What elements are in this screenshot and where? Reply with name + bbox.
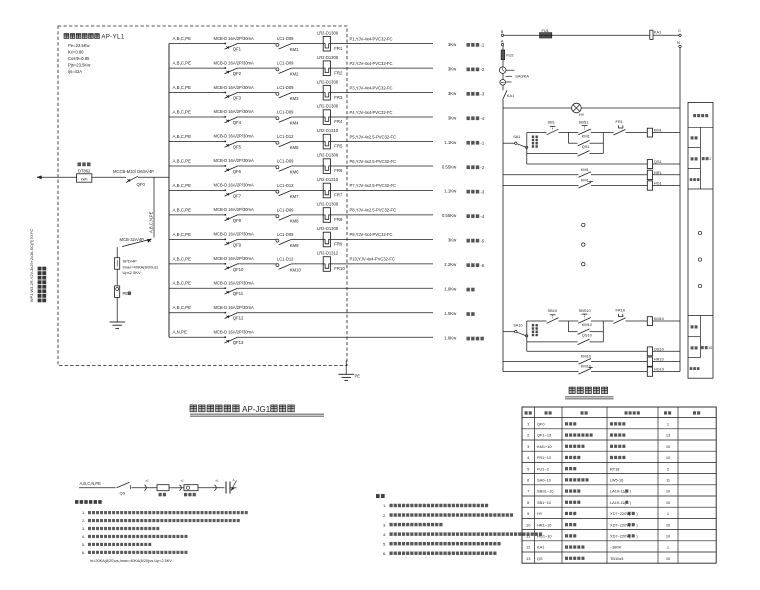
continuation dots control [582,223,585,266]
time switch SA0 clock symbol [499,67,529,79]
svg-text:13: 13 [666,433,670,438]
svg-text:A,B,C,PE: A,B,C,PE [173,85,192,90]
row 1 load name [467,43,485,48]
svg-text:QF12: QF12 [233,316,244,321]
SPD isolating breaker MCB-32A/4P [120,237,152,247]
svg-text:LR2-D1306: LR2-D1306 [317,30,339,35]
legend row 11 HG1~10 [526,534,671,539]
svg-text:QS1: QS1 [654,159,662,164]
svg-text:1.1Kw: 1.1Kw [444,140,457,145]
svg-text:SBS10: SBS10 [579,308,592,313]
cable label P2,YJV-4x4-PVC32-FC [350,61,393,66]
svg-text:KM3: KM3 [290,96,299,101]
svg-text:11: 11 [666,478,670,483]
timer rung wire [527,350,680,352]
row 12 load name [467,312,475,316]
svg-text:3: 3 [527,444,529,449]
row 6 load name [467,165,485,170]
svg-text:P6,YJV-4x2.5-PVC32-FC: P6,YJV-4x2.5-PVC32-FC [350,159,397,164]
svg-text:N: N [677,40,680,45]
contactor KM1 LC1-D09 [276,36,299,52]
svg-text:3Kw: 3Kw [448,115,457,120]
relay coil KA1 [650,30,661,40]
svg-text:KM1~10: KM1~10 [537,444,552,449]
contactor KM3 LC1-D09 [276,85,299,101]
svg-text:MCB-D 16A/2P/30mA: MCB-D 16A/2P/30mA [214,134,255,139]
row 2 load name [467,67,485,72]
incoming cable label WP1 vertical [29,229,34,302]
svg-text:A,B,C,N,PE: A,B,C,N,PE [148,211,153,233]
contactor KM6 LC1-D09 [276,159,299,175]
svg-text:KM5: KM5 [290,145,299,150]
svg-text:Up≤2.5KV: Up≤2.5KV [123,270,142,275]
thermal relay FR3 LR2-D1306 [317,79,343,100]
breaker QF3 MCB-D 16A/2P/30mA [214,85,255,101]
svg-text:A,B,C,PE: A,B,C,PE [173,134,192,139]
svg-text:1.: 1. [82,511,85,515]
cable label P7,YJV-4x2.5-PVC32-FC [350,183,397,188]
cell pump 10 [701,346,712,350]
breaker QF9 MCB-D 16A/2P/30mA [214,232,255,248]
svg-text:AP-JG1: AP-JG1 [242,405,271,414]
svg-text:KM1: KM1 [582,134,590,139]
power indicator rung wire [503,107,680,109]
thermal contact FR10 [614,308,626,324]
lamp HR1 [647,170,661,180]
cable label P8,YJV-4x2.5-PVC32-FC [350,208,397,213]
legend row 12 KA1 [526,545,669,550]
svg-text:QF8: QF8 [233,218,242,223]
selector switch SA1 [503,134,528,149]
main distribution bus [168,44,170,338]
contactor coil KM10 [647,316,664,326]
svg-text:KM4: KM4 [290,120,299,125]
svg-text:5: 5 [527,466,529,471]
row 4 power label 3Kw [448,115,457,120]
svg-text:FR9: FR9 [334,242,343,247]
svg-text:QF6: QF6 [233,169,242,174]
selector vertical link [526,133,528,165]
indicator lamp HY [572,103,585,117]
svg-text:LR2-D1310: LR2-D1310 [317,128,339,133]
SPD note line 6. [82,551,187,555]
svg-text:2.: 2. [383,513,386,518]
svg-text:1: 1 [667,511,669,516]
contactor KM2 LC1-D09 [276,61,299,77]
row 10 phase label A,B,C,PE [173,256,192,261]
svg-text:SB1~10: SB1~10 [537,500,552,505]
svg-text:FR3: FR3 [334,95,343,100]
row 11 power label 1.0Kw [444,287,457,292]
row 2 phase label A,B,C,PE [173,61,192,66]
svg-text:FR4: FR4 [334,119,343,124]
row 1 phase label A,B,C,PE [173,36,192,41]
main breaker QF0 MCCB-M10/D63A/4P [113,169,154,187]
breaker QF5 MCB-D 16A/2P/30mA [214,134,255,150]
table header power indication [693,114,708,117]
row 4 phase label A,B,C,PE [173,109,192,114]
svg-text:QF4: QF4 [233,120,242,125]
svg-text:MCB-D 16A/2P/30mA: MCB-D 16A/2P/30mA [214,281,255,286]
legend row 10 HR1~10 [526,522,671,527]
svg-text:4.: 4. [383,532,386,537]
SPD detail switch QS [117,482,131,495]
svg-text:A,B,C,PE: A,B,C,PE [173,232,192,237]
svg-text:LC1-D09: LC1-D09 [277,85,294,90]
row 4 load name [467,116,485,121]
cable label P10,YJV-4x4-PVC32-FC [350,257,395,262]
breaker QF12 MCB-D 16A/2P/30mA [214,305,255,321]
start button SBS10 [578,308,591,324]
svg-text:RT18: RT18 [610,466,619,471]
svg-text:QS: QS [120,490,126,495]
svg-text:A,N,PE: A,N,PE [173,330,187,335]
legend row 8 SB1~10 [527,500,671,505]
manual rung wire [527,320,680,322]
row 1 power label 3Kw [448,42,457,47]
svg-text:P7,YJV-4x2.5-PVC32-FC: P7,YJV-4x2.5-PVC32-FC [350,183,397,188]
svg-text:kWh: kWh [81,178,88,182]
svg-text:KM10: KM10 [582,322,593,327]
row 8 wire [169,214,433,216]
conductor mark L1 b [180,479,185,491]
svg-text:~380V: ~380V [610,545,622,550]
breaker QF2 MCB-D 16A/2P/30mA [214,60,255,76]
cell signal lamp 1 [690,178,700,181]
svg-text:HG1: HG1 [654,181,662,186]
svg-text:CosΦ=0.85: CosΦ=0.85 [68,56,90,61]
svg-text:PE: PE [123,291,129,296]
wire SPD to PE bar [116,269,118,286]
diagram title AP-JG1 system diagram [190,405,324,416]
svg-text:3.: 3. [82,527,85,531]
svg-text:MCB-D 16A/2P/30mA: MCB-D 16A/2P/30mA [214,207,255,212]
counter box SPD detail [184,485,198,497]
row 5 power label 1.1Kw [444,140,457,145]
breaker QF6 MCB-D 16A/2P/30mA [214,158,255,174]
svg-text:SPD/4P: SPD/4P [123,259,138,264]
thermal contact FR1 [614,119,626,135]
svg-text:B: B [501,29,504,34]
svg-text:QS1: QS1 [582,144,590,149]
panel name label AP-YL1 [64,34,125,41]
svg-text:1: 1 [527,422,529,427]
row 8 phase label A,B,C,PE [173,207,192,212]
svg-text:3Kw: 3Kw [448,42,457,47]
svg-text:FR10: FR10 [616,308,626,313]
fuse FU1 [540,28,552,38]
control top wire [504,34,679,36]
svg-text:5.: 5. [82,543,85,547]
svg-text:2.2Kw: 2.2Kw [444,262,457,267]
legend row 9 HY [527,511,669,516]
svg-text:HR10: HR10 [654,357,665,362]
svg-text:A,B,C,PE: A,B,C,PE [173,158,192,163]
contactor KM9 LC1-D09 [276,232,299,248]
svg-text:QF2: QF2 [233,71,242,76]
svg-text:x1: x1 [181,479,185,483]
svg-text:KA1: KA1 [654,30,661,35]
svg-text:4.: 4. [82,535,85,539]
svg-text:1.0Kw: 1.0Kw [444,287,457,292]
mode labels hand/auto [532,324,538,336]
lamp HG1 [647,181,662,191]
svg-text:FR1: FR1 [334,46,343,51]
svg-text:FU1: FU1 [542,28,549,33]
svg-text:FR8: FR8 [334,217,343,222]
note line 2. [383,513,513,518]
cable label P5,YJV-4x2.5-PVC32-FC [350,134,397,139]
row 8 load name [467,214,485,219]
svg-text:5.: 5. [383,541,386,546]
aux contact KM1 [568,134,603,146]
legend row 7 SBS1~10 [527,489,671,494]
svg-text:0.55Kw: 0.55Kw [442,213,457,218]
row 6 wire [169,165,433,167]
contactor coil KM1 [647,128,662,138]
svg-text:A: A [501,38,504,43]
row 2 power label 3Kw [448,66,457,71]
svg-text:MCB-D 16A/2P/30mA: MCB-D 16A/2P/30mA [214,36,255,41]
row 9 power label 3Kw [448,238,457,243]
relay contact KA1 [503,90,514,99]
wire QF0 to main bus [138,176,169,178]
svg-text:QF0: QF0 [537,422,545,427]
svg-text:MCCB-M10/ D63A/4P: MCCB-M10/ D63A/4P [113,169,154,174]
row 11 wire [169,287,433,289]
legend row 13 QS [526,556,671,561]
svg-text:A,B,C,PE: A,B,C,PE [173,183,192,188]
svg-text:LC1-D09: LC1-D09 [277,36,294,41]
cable label P1,YJV-4x4-PVC32-FC [350,36,393,41]
svg-text:LR2-D1308: LR2-D1308 [317,202,339,207]
row 9 wire [169,238,433,240]
incoming source note vertical bold [38,267,47,303]
contactor KM10 LC1-D12 [276,256,302,272]
SPD note line 3. [82,527,159,531]
svg-text:A,B,C,N,PE: A,B,C,N,PE [80,481,102,486]
row 3 power label 3Kw [448,91,457,96]
svg-text:2: 2 [667,466,669,471]
svg-text:1.0Kw: 1.0Kw [444,336,457,341]
svg-text:LR2-D1312: LR2-D1312 [317,251,339,256]
svg-text:FR5: FR5 [334,144,343,149]
svg-text:6.: 6. [82,551,85,555]
svg-text:SBS1: SBS1 [579,119,589,124]
svg-text:KM7: KM7 [290,194,299,199]
control function table [688,102,713,378]
wire branch to SPD [153,177,155,237]
legend row 3 KM1~10 [527,444,671,449]
svg-text:A,B,C,PE: A,B,C,PE [173,36,192,41]
row 5 load name [467,141,485,146]
svg-text:Ijs=42A: Ijs=42A [68,69,82,74]
SPD note line 1. [82,511,248,515]
contact KM10 NC [579,364,593,374]
row 5 wire [169,141,433,143]
svg-text:MCB-D 16A/2P/30mA: MCB-D 16A/2P/30mA [214,232,255,237]
svg-text:LC1-D09: LC1-D09 [277,110,294,115]
svg-text:FU1~2: FU1~2 [537,466,549,471]
legend row 2 QF1~13 [527,433,670,438]
svg-text:SBS1~10: SBS1~10 [537,489,554,494]
cable label P9,YJV-4x4-PVC32-FC [350,232,393,237]
panel parameter labels [68,43,91,74]
svg-text:A,B,C,PE: A,B,C,PE [173,109,192,114]
legend row 6 SA0~10 [527,478,670,483]
notes block title [376,494,385,498]
legend row 4 FR1~10 [527,455,671,460]
control terminal C [678,28,681,37]
note line 6. [383,551,496,556]
svg-text:C: C [678,28,681,33]
svg-text:6.: 6. [383,551,386,556]
SPD detail wire 3 [169,487,184,489]
svg-text:FR2: FR2 [334,70,343,75]
svg-text:SA0~10: SA0~10 [537,478,552,483]
wire to SPD [116,247,118,258]
thermal relay FR9 LR2-D1306 [317,226,343,247]
svg-text:KM10: KM10 [654,316,665,321]
row 7 wire [169,189,433,191]
svg-text:FR1~10: FR1~10 [537,455,552,460]
svg-text:x1: x1 [216,479,220,483]
cable label P6,YJV-4x2.5-PVC32-FC [350,159,397,164]
control diagram caption [565,387,614,399]
svg-text:AP-YL1: AP-YL1 [101,34,124,41]
svg-text:9: 9 [527,511,529,516]
row 7 load name [467,190,485,195]
SPD detail phase label [80,481,102,486]
neutral line N [679,48,681,372]
svg-text:P3,YJV-4x4-PVC32-FC: P3,YJV-4x4-PVC32-FC [350,85,393,90]
SPD detail wire 1 [79,487,116,489]
row 3 load name [467,92,485,97]
meter box DT862 [77,162,92,182]
selector vertical link [526,321,528,351]
svg-text:HY: HY [579,112,585,117]
breaker QF8 MCB-D 16A/2P/30mA [214,207,255,223]
row 12 power label 1.0Kw [444,311,457,316]
row 11 load name [467,288,475,292]
row 11 phase label A,B,C,PE [173,281,192,286]
row 9 phase label A,B,C,PE [173,232,192,237]
wire PE bar to ground [116,297,118,322]
svg-text:LC1-D09: LC1-D09 [277,232,294,237]
thermal relay FR10 LR2-D1312 [317,251,346,272]
svg-text:MCB-D 16A/2P/30mA: MCB-D 16A/2P/30mA [214,256,255,261]
row 5 phase label A,B,C,PE [173,134,192,139]
SPD note continuation line [90,559,173,563]
svg-text:QF10: QF10 [233,267,244,272]
svg-text:2.: 2. [82,519,85,523]
thermal relay FR1 LR2-D1306 [317,30,343,51]
svg-text:8: 8 [527,500,529,505]
svg-text:LR2-D1306: LR2-D1306 [317,79,339,84]
cable label P4,YJV-4x4-PVC32-FC [350,110,393,115]
svg-text:P1,YJV-4x4-PVC32-FC: P1,YJV-4x4-PVC32-FC [350,36,393,41]
svg-text:1.: 1. [383,503,386,508]
svg-text:KM10: KM10 [290,267,302,272]
svg-text:3Kw: 3Kw [448,66,457,71]
thermal relay FR4 LR2-D1306 [317,104,343,125]
svg-text:P2,YJV-4x4-PVC32-FC: P2,YJV-4x4-PVC32-FC [350,61,393,66]
svg-text:P8,YJV-4x2.5-PVC32-FC: P8,YJV-4x2.5-PVC32-FC [350,208,397,213]
wire meter to QF0 [92,176,126,178]
svg-text:P9,YJV-4x4-PVC32-FC: P9,YJV-4x4-PVC32-FC [350,232,393,237]
svg-text:FU2: FU2 [506,52,513,57]
row 7 power label 1.1Kw [444,189,457,194]
contact KM1 NC [579,178,593,188]
svg-text:FR6: FR6 [334,168,343,173]
svg-text:KM8: KM8 [290,218,299,223]
SPD note line 4. [82,535,187,539]
row 6 phase label A,B,C,PE [173,158,192,163]
control terminal N [677,40,681,48]
control terminal B [501,29,504,36]
svg-text:LR2-D1308: LR2-D1308 [317,153,339,158]
row 1 wire [169,43,433,45]
svg-text:1: 1 [667,545,669,550]
continuation dots table [698,231,701,287]
row 8 power label 0.55Kw [442,213,457,218]
svg-text:Pe=23.5Kw: Pe=23.5Kw [68,43,91,48]
svg-text:MCB-D 16A/2P/30mA: MCB-D 16A/2P/30mA [214,158,255,163]
svg-text:LC1-D09: LC1-D09 [277,159,294,164]
svg-text:QF1: QF1 [233,47,242,52]
svg-text:KM2: KM2 [290,72,299,77]
svg-text:3.: 3. [383,522,386,527]
row 10 power label 2.2Kw [444,262,457,267]
svg-text:LC1-D12: LC1-D12 [277,256,294,261]
row 4 wire [169,116,433,118]
svg-text:PE: PE [355,374,361,379]
junction link right [602,321,604,342]
svg-text:A,B,C,PE: A,B,C,PE [173,281,192,286]
svg-text::: : [102,500,103,505]
SPD arrester symbol [226,478,237,494]
stop lamp rung wire [503,371,680,373]
cell signal lamp 10 [690,367,700,370]
row 13 power label 1.0Kw [444,336,457,341]
legend row 1 QF0 [527,422,669,427]
PE bar [115,286,131,298]
time controller QS10 [647,346,664,356]
svg-text:FR1: FR1 [616,119,623,124]
cell manual 10 [691,325,698,328]
svg-text:1.1Kw: 1.1Kw [444,189,457,194]
timer rung wire [527,163,680,165]
svg-text:SA1: SA1 [513,134,520,139]
svg-text:SA10: SA10 [513,323,523,328]
cable label P3,YJV-4x4-PVC32-FC [350,85,393,90]
thermal relay FR8 LR2-D1308 [317,202,343,223]
svg-text:1: 1 [667,422,669,427]
breaker QF7 MCB-D 16A/2P/30mA [214,183,255,199]
thermal relay FR5 LR2-D1310 [317,128,343,149]
svg-text:13: 13 [526,556,530,561]
lamp HG10 [647,367,664,377]
svg-text:A,B,C,PE: A,B,C,PE [173,207,192,212]
thermal relay FR7 LR2-D1310 [317,177,343,198]
thermal relay FR6 LR2-D1308 [317,153,343,174]
svg-text:QF13: QF13 [233,340,244,345]
time controller QS1 [647,159,661,169]
svg-text:10: 10 [708,346,712,350]
svg-text:FR10: FR10 [334,266,345,271]
SPD note line 5. [82,543,151,547]
svg-text:QF7: QF7 [233,193,242,198]
